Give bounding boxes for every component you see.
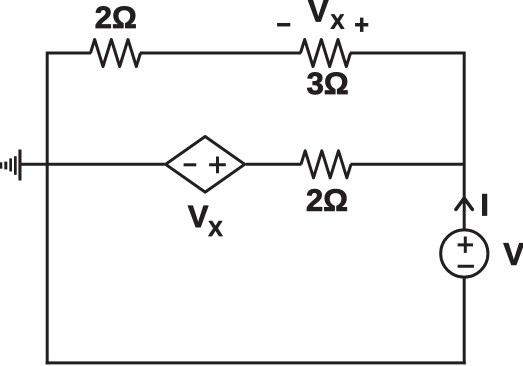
label 2ohm for R3 <box>307 189 347 211</box>
dependent source U1 diamond <box>166 137 245 193</box>
label 2ohm for R1 <box>96 6 136 28</box>
wire middle-left segment from ground to diamond <box>20 163 165 166</box>
wire top-middle segment <box>140 52 301 55</box>
wire middle-right segment <box>351 163 465 166</box>
label Vx top - X subscript <box>331 15 344 29</box>
resistor R2 3ohm top-right zigzag <box>301 40 351 67</box>
label V source <box>504 243 523 265</box>
minus sign of Vx polarity label (top) <box>277 23 290 27</box>
plus sign inside diamond <box>209 157 226 174</box>
minus sign inside diamond <box>184 163 197 166</box>
label Vx top - V <box>308 0 328 21</box>
wire top-left segment <box>47 52 91 55</box>
minus sign inside source V <box>458 265 474 268</box>
plus sign of Vx polarity label (top) <box>355 18 368 32</box>
label I current <box>482 194 486 215</box>
plus sign inside source V <box>458 237 473 253</box>
ground symbol <box>0 150 22 181</box>
label 3ohm for R2 <box>307 72 347 94</box>
label Vx below diamond - X subscript <box>208 221 222 236</box>
resistor R1 2ohm top-left zigzag <box>91 40 141 67</box>
wire middle segment diamond to R3 <box>246 163 302 166</box>
label Vx below diamond - V <box>188 206 208 227</box>
arrowhead of current I on right wire <box>456 198 472 209</box>
wire bottom <box>46 361 466 364</box>
wire top-right segment <box>350 52 464 55</box>
resistor R3 2ohm middle zigzag <box>301 151 351 178</box>
wire right vertical <box>463 52 466 365</box>
voltage source V circle <box>441 230 488 277</box>
wire left vertical <box>46 52 49 365</box>
